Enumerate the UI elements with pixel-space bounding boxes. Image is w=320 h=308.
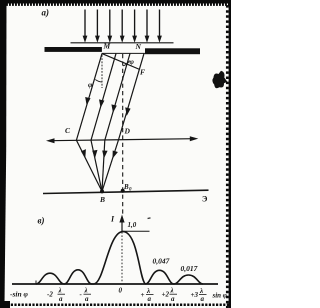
scan border: top strip [0,0,231,4]
label +2 lambda/a [162,287,176,303]
scan border: right edge [229,0,231,308]
svg-text:в): в) [38,216,45,226]
arrowhead on ray 3 [111,104,116,112]
arrowhead on ray 1 [85,97,91,105]
svg-text:a: a [201,295,205,303]
central axis dashed line [122,54,124,214]
svg-text:a: a [171,295,175,303]
incident wave arrow 7 [159,10,161,40]
angle arc near N [123,61,130,66]
tick at -3 lambda/a [35,281,37,285]
svg-text:-2: -2 [47,291,53,299]
svg-text:+: + [141,291,145,299]
svg-text:a: a [85,295,89,303]
svg-text:φ: φ [130,57,135,66]
incident wave arrow 4 [121,10,123,40]
lens line with double arrows [50,139,194,141]
svg-text:λ: λ [146,287,150,295]
incident wave arrow 6 [146,10,148,40]
incident wave arrow 3 [109,10,111,40]
svg-text:Э: Э [202,195,208,204]
arrowhead converging 1 [81,149,86,158]
ink blob [212,71,227,88]
svg-text:φ: φ [88,80,93,89]
svg-text:а): а) [42,8,50,18]
level line at 1.0 [123,230,150,232]
point B [100,189,104,193]
arrowhead converging 3 [102,151,107,159]
arrowhead converging 2 [92,150,97,159]
svg-text:M: M [103,42,111,51]
label +3 lambda/a [191,287,205,303]
diffracted ray 3 [105,54,130,141]
focal screen line [43,190,209,193]
svg-text:1,0: 1,0 [128,221,137,229]
label +lambda/a [141,287,152,303]
svg-text:-sin φ: -sin φ [10,290,29,299]
dotted axis through peak [121,232,123,283]
incident wave arrow 5 [134,10,136,40]
svg-text:+3: +3 [191,291,199,299]
svg-text:0,047: 0,047 [153,257,170,266]
slit barrier right segment [145,48,200,54]
svg-text:sin φ: sin φ [212,292,227,300]
svg-text:λ: λ [84,287,88,295]
converging ray 2 [91,140,102,191]
converging ray 1 [76,140,102,191]
x axis sin phi [12,283,218,285]
svg-text:a: a [59,295,63,303]
svg-text:0,017: 0,017 [181,264,198,273]
svg-text:B: B [99,195,105,204]
label -lambda/a [80,287,90,303]
intensity curve [36,232,203,284]
slit barrier left segment [45,47,102,52]
I axis arrow [121,221,123,232]
svg-text:λ: λ [58,287,62,295]
point B0 [121,189,125,193]
slit line MN [102,52,145,54]
diffracted ray from N [118,54,144,141]
wavefront line [71,42,174,44]
svg-text:F: F [140,68,145,77]
perpendicular MF [102,54,140,70]
converging ray 4 [102,140,118,191]
angle arc at M [95,80,102,83]
vertical reference segment at M [101,55,103,88]
arrowhead converging 4 [113,151,118,159]
incident wave arrow 1 [84,10,86,40]
stray mark near 1,0 [147,217,150,219]
scan border: bottom dotted edge [0,303,231,306]
scan border: left strip [0,0,7,305]
svg-text:λ: λ [199,287,203,295]
label -2 lambda/a [47,287,63,303]
incident wave arrow 2 [96,10,98,40]
arrowhead on ray 4 [125,107,130,115]
paper background [0,0,231,308]
svg-text:N: N [135,42,142,51]
converging ray 3 [102,140,105,191]
svg-text:0: 0 [119,287,123,295]
svg-text:λ: λ [170,287,174,295]
svg-text:D: D [124,127,131,136]
svg-text:a: a [148,295,152,303]
svg-text:+2: +2 [162,291,170,299]
diffracted ray from M [76,54,102,141]
diffracted ray 2 [91,54,116,141]
arrowhead on ray 2 [99,99,104,107]
